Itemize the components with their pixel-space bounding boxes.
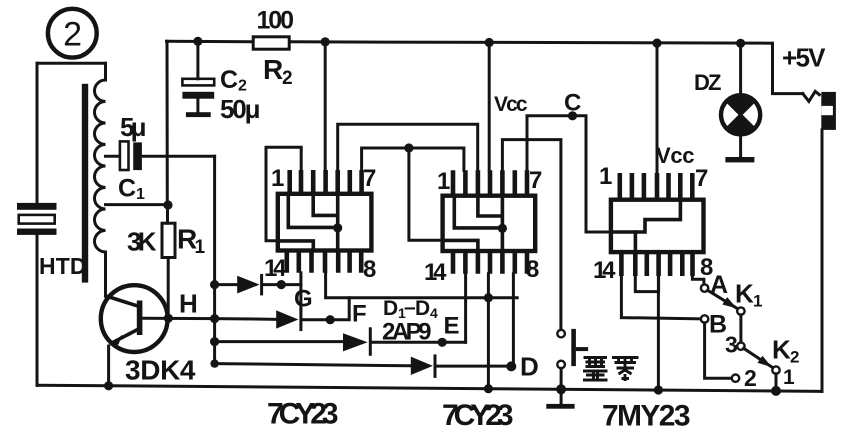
svg-text:8: 8 <box>363 256 376 283</box>
svg-text:C: C <box>118 175 136 203</box>
svg-text:E: E <box>444 313 460 340</box>
transformer B winding coil <box>95 63 106 252</box>
wire bottom ground rail <box>37 385 822 391</box>
switch K1 contact A <box>701 284 708 291</box>
wire rail to U1 pin4 <box>324 42 327 170</box>
wire R1 bottom to base node <box>167 258 170 319</box>
switch contact B <box>701 315 708 322</box>
wire coil bottom to transistor collector <box>104 252 107 296</box>
svg-text:7CY23: 7CY23 <box>442 399 513 432</box>
capacitor C2 50u <box>182 79 214 99</box>
label D1-D4 <box>383 296 438 321</box>
wire D2 cathode to F jog <box>303 298 349 320</box>
wire IC2 pin11 to ground rail <box>487 274 490 389</box>
IC U3 7MY23 body <box>611 200 704 252</box>
wire row4 <box>215 364 512 367</box>
wire K2 contact1 to rail <box>775 374 778 391</box>
svg-text:HTD: HTD <box>39 253 86 279</box>
node U3 ground rail junction <box>654 385 663 394</box>
svg-text:4: 4 <box>430 305 438 321</box>
switch K2 contact 3 <box>737 343 744 350</box>
IC U3 internal wiring <box>612 201 681 251</box>
wire C net U2 pin7 to U3 <box>527 116 611 232</box>
wire coil tap to C1 <box>106 155 121 158</box>
IC U2 internal wiring <box>444 198 507 250</box>
diode D2 <box>276 309 301 329</box>
ground below button <box>546 389 574 408</box>
switch K1 arm <box>708 290 738 309</box>
node row1 junction <box>277 280 286 289</box>
svg-text:2: 2 <box>63 16 81 54</box>
IC U1 bottom pins <box>287 251 361 273</box>
svg-text:2: 2 <box>790 348 799 367</box>
wire U1 pin2 wrap loop <box>266 147 301 241</box>
ground C2 <box>186 112 211 117</box>
wire U2 pin5 to reset button <box>502 140 561 330</box>
svg-text:5μ: 5μ <box>120 112 146 142</box>
pushbutton actuator <box>571 329 588 366</box>
node emitter rail junction <box>104 381 113 390</box>
svg-text:R: R <box>263 54 283 85</box>
svg-text:3DK4: 3DK4 <box>125 355 196 386</box>
wire diode bus vertical <box>213 156 216 363</box>
svg-text:K: K <box>735 279 754 309</box>
wire C1 to diode bus <box>142 155 215 158</box>
wire F line <box>326 273 518 298</box>
node button rail junction <box>556 384 566 394</box>
wire rail to U2 pin4 Vcc <box>488 43 491 171</box>
node C2 rail junction <box>193 37 202 46</box>
wire left vertical to HTD <box>36 63 39 203</box>
svg-text:D: D <box>415 297 430 320</box>
svg-text:1: 1 <box>783 366 795 389</box>
IC U2 top pins <box>453 170 527 195</box>
wire U3 pin11 to ground rail <box>657 276 660 390</box>
node F ground junction <box>484 293 493 302</box>
node E junction <box>438 338 447 347</box>
IC U3 top pins <box>620 173 693 200</box>
node DZ rail junction <box>736 39 745 48</box>
wire top +5V rail <box>167 41 773 43</box>
wire rail left end down to R1 node <box>166 41 169 205</box>
switch K1 lower contact <box>737 307 744 314</box>
wire rail to DZ <box>739 43 742 95</box>
svg-text:1: 1 <box>136 186 145 203</box>
resistor R1 3K <box>162 223 175 257</box>
resistor R2 100 <box>253 37 289 49</box>
switch K2 contact 1 <box>772 366 779 373</box>
wire B to contact 2 <box>705 323 732 379</box>
wire R1 top <box>166 205 169 223</box>
node base junction <box>164 314 173 323</box>
switch K2 arm <box>744 348 773 368</box>
wire K1 to K2 contact 3 <box>739 315 742 343</box>
svg-text:Vcc: Vcc <box>494 93 528 116</box>
IC U1 internal wiring <box>280 196 343 250</box>
svg-text:1: 1 <box>195 237 206 258</box>
node diode bus row4 <box>210 359 218 367</box>
svg-text:50μ: 50μ <box>220 94 260 124</box>
svg-text:2: 2 <box>282 68 292 89</box>
label C1 <box>118 175 145 204</box>
ground below DZ <box>725 134 754 162</box>
label K1 <box>735 279 762 311</box>
IC U2 bottom pins <box>453 251 527 274</box>
svg-text:C: C <box>220 66 238 94</box>
svg-text:14: 14 <box>424 259 447 286</box>
wire rail right end to connector <box>773 43 820 101</box>
wire G pin13 to D2 cathode <box>299 273 302 310</box>
svg-text:7: 7 <box>695 165 708 192</box>
label R2 <box>263 54 292 89</box>
wire coil tap to R1 node <box>106 203 168 206</box>
pushbutton reset top contact <box>557 330 565 338</box>
node diode bus row3 <box>210 337 219 346</box>
svg-text:3: 3 <box>725 332 737 358</box>
node U3 Vcc rail junction <box>652 39 661 48</box>
svg-text:1: 1 <box>753 292 762 311</box>
pushbutton reset bottom contact <box>557 361 565 369</box>
svg-text:14: 14 <box>593 257 616 284</box>
svg-text:D: D <box>383 297 398 320</box>
wire branch to U2 left entry <box>409 148 443 240</box>
svg-text:1: 1 <box>599 163 612 190</box>
svg-text:2: 2 <box>238 78 247 95</box>
svg-text:7: 7 <box>529 167 542 194</box>
svg-text:7CY23: 7CY23 <box>267 398 338 431</box>
wire row3 <box>215 340 466 344</box>
label K2 <box>772 335 799 367</box>
svg-text:H: H <box>179 289 197 319</box>
svg-text:2AP9: 2AP9 <box>382 319 431 346</box>
wire D to IC2 pin9 <box>512 274 515 367</box>
svg-text:1: 1 <box>271 165 284 192</box>
IC U3 bottom pins <box>621 252 692 276</box>
transformer B primary top wire <box>37 62 106 65</box>
lamp DZ <box>721 95 760 134</box>
node R2 right junction <box>321 37 330 46</box>
IC U1 7CY23 body <box>278 194 372 251</box>
svg-text:14: 14 <box>264 255 287 282</box>
wire rail to U3 pin4 Vcc <box>656 43 659 173</box>
svg-text:3K: 3K <box>127 227 157 257</box>
transformer core bar <box>82 84 88 283</box>
svg-text:2: 2 <box>744 365 756 391</box>
wire right edge to ground rail <box>821 130 824 392</box>
node row2 junction <box>326 315 335 324</box>
switch K2 contact 2 <box>732 375 739 382</box>
label zhiling reset <box>583 358 639 382</box>
wire row1 <box>215 283 301 286</box>
svg-text:C: C <box>564 90 581 117</box>
wire HTD to ground rail <box>36 235 39 386</box>
svg-text:D: D <box>520 352 538 382</box>
IC U2 7CY23 body <box>443 196 536 251</box>
svg-text:G: G <box>294 286 312 313</box>
node U1 pin7 branch <box>404 143 413 152</box>
wire button to ground rail <box>560 368 563 389</box>
svg-text:100: 100 <box>257 7 294 35</box>
IC U1 top pins <box>290 170 362 194</box>
label R1 <box>177 224 206 259</box>
wire emitter to rail <box>107 346 110 386</box>
label C2 <box>220 66 247 95</box>
wire U3 ground pins loop <box>635 276 658 292</box>
node R1 top junction <box>163 200 172 209</box>
node diode bus row2 <box>210 314 219 323</box>
svg-text:K: K <box>772 335 791 365</box>
transducer HTD <box>17 203 57 235</box>
wire rail to C2 <box>196 41 199 78</box>
diode D1 <box>237 275 261 294</box>
wire U3 pin14 to B <box>621 276 701 319</box>
figure badge circled 2 <box>48 9 97 58</box>
wire row2 to diode D2 <box>215 317 277 321</box>
wire C2 to ground bar <box>196 99 199 113</box>
capacitor C1 5u <box>120 141 142 170</box>
svg-text:Vcc: Vcc <box>656 143 694 168</box>
node K2 rail junction <box>771 386 781 396</box>
node D junction <box>506 361 516 371</box>
svg-text:7: 7 <box>363 165 376 192</box>
svg-text:1: 1 <box>437 168 450 195</box>
node U2 Vcc rail junction <box>485 38 494 47</box>
svg-text:8: 8 <box>526 256 539 283</box>
node F rail junction <box>484 384 493 393</box>
connector battery terminal <box>821 92 836 130</box>
wire U1 pin5 to U2 pin3 <box>338 124 478 170</box>
diode D4 <box>411 356 435 377</box>
node diode bus row1 <box>210 280 219 289</box>
transistor Q1 3DK4 <box>101 285 168 352</box>
svg-text:DZ: DZ <box>694 70 721 95</box>
wire U3 pin8 to A <box>692 276 704 284</box>
svg-text:7MY23: 7MY23 <box>602 400 690 433</box>
wire U1 pin7 to U2 pin2 <box>362 148 464 170</box>
diode D3 <box>343 329 370 355</box>
wire E to IC2 pin13 <box>464 274 467 343</box>
wire base to H <box>142 317 214 320</box>
node C <box>568 111 577 120</box>
svg-text:+5V: +5V <box>782 43 826 73</box>
svg-text:F: F <box>352 301 366 328</box>
svg-text:B: B <box>709 311 727 339</box>
